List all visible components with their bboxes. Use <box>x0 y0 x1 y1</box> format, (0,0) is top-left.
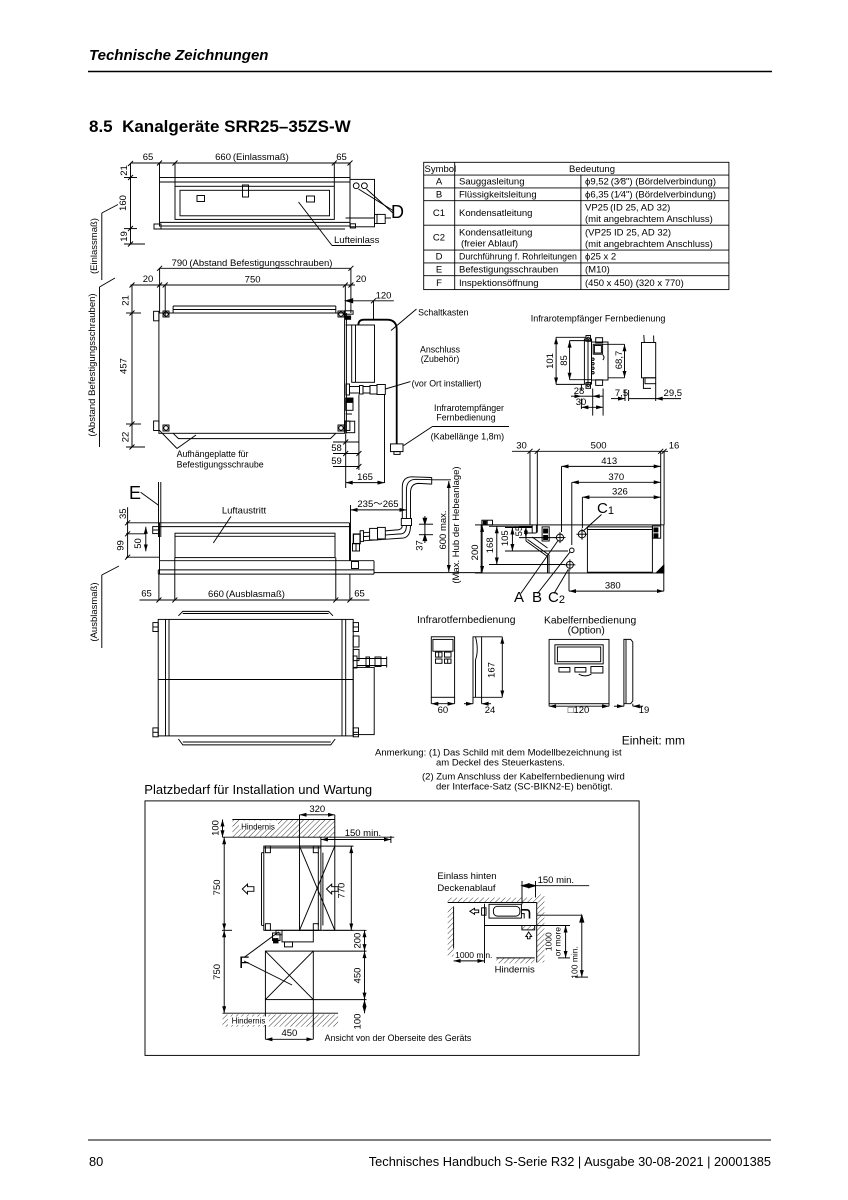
extension lines (bolt lines) <box>159 268 161 313</box>
svg-text:Einheit: mm: Einheit: mm <box>622 734 685 748</box>
svg-text:19: 19 <box>119 231 130 242</box>
inlet opening <box>175 186 334 219</box>
extension lines <box>529 451 531 525</box>
receiver detail texts <box>531 314 682 409</box>
37 dim <box>424 516 426 543</box>
lower body lines <box>160 560 375 562</box>
svg-text:Durchführung f. Rohrleitungen: Durchführung f. Rohrleitungen <box>459 252 577 262</box>
50 dim <box>145 527 147 552</box>
right small niche drawing <box>448 881 590 977</box>
dim 326 <box>582 496 660 498</box>
svg-text:(vor Ort installiert): (vor Ort installiert) <box>412 379 482 389</box>
svg-text:19: 19 <box>639 705 650 716</box>
svg-text:150 min.: 150 min. <box>538 875 574 886</box>
inlet tabs <box>197 196 205 202</box>
svg-text:(freier Ablauf): (freier Ablauf) <box>461 239 518 250</box>
leader Luftaustritt <box>213 516 231 543</box>
svg-text:100: 100 <box>211 820 222 836</box>
svg-text:ϕ9,52 (3∕8") (Bördelverbindung: ϕ9,52 (3∕8") (Bördelverbindung) <box>585 177 716 188</box>
right reference lines <box>537 914 582 916</box>
unit top view <box>264 846 321 930</box>
page header rule <box>88 71 772 73</box>
svg-text:660 (Ausblasmaß): 660 (Ausblasmaß) <box>208 589 285 600</box>
dim line 65/660/65 top <box>131 162 351 164</box>
F opening upper (X) <box>300 846 335 930</box>
600 max dim <box>448 481 450 572</box>
niche drawing texts <box>437 871 579 979</box>
svg-text:Aufhängeplatte für: Aufhängeplatte für <box>177 449 249 459</box>
svg-text:Bedeutung: Bedeutung <box>569 164 615 175</box>
buttons <box>592 358 594 360</box>
svg-text:320: 320 <box>309 804 325 815</box>
ceiling hatch <box>448 898 537 903</box>
svg-text:or more: or more <box>553 927 563 957</box>
svg-text:168: 168 <box>485 537 496 553</box>
svg-text:(VP25 ID 25, AD 32): (VP25 ID 25, AD 32) <box>585 228 671 239</box>
dim line 20/750/20 <box>131 284 356 286</box>
leader Schaltkasten <box>391 309 417 331</box>
svg-text:Hindernis: Hindernis <box>241 823 275 832</box>
svg-text:ϕ25 x 2: ϕ25 x 2 <box>585 252 616 263</box>
leader E <box>141 492 159 505</box>
svg-text:Anschluss: Anschluss <box>420 344 461 354</box>
svg-text:59: 59 <box>331 456 342 467</box>
dim 200 <box>364 930 366 951</box>
dim 1000 or more <box>565 926 567 958</box>
wired remote front <box>549 639 609 703</box>
unit <box>489 904 521 918</box>
leaders A B C2 C1 <box>521 541 558 594</box>
svg-text:200: 200 <box>352 933 363 949</box>
dim 100 top <box>222 820 224 838</box>
left wall <box>448 907 454 956</box>
svg-text:101: 101 <box>545 353 556 369</box>
bottom obstacle <box>496 957 534 959</box>
svg-text:Technisches Handbuch S-Serie R: Technisches Handbuch S-Serie R32 | Ausga… <box>369 1154 771 1169</box>
pipe assembly: tilted horizontal run <box>363 530 397 533</box>
svg-text:Befestigungsschrauben: Befestigungsschrauben <box>459 265 558 276</box>
svg-text:Kondensatleitung: Kondensatleitung <box>459 228 532 239</box>
svg-text:85: 85 <box>559 355 570 366</box>
svg-text:380: 380 <box>605 580 621 591</box>
outer frame <box>145 801 639 1056</box>
flow arrow left <box>470 908 479 914</box>
svg-text:E: E <box>129 483 141 503</box>
svg-text:C2: C2 <box>433 233 445 244</box>
dim 29,5 <box>629 398 656 400</box>
dim 120 <box>346 300 394 302</box>
58/59 ticks <box>345 433 347 488</box>
leader Aufhaengeplatte <box>159 430 177 449</box>
right wall <box>537 895 545 963</box>
bottom dim 65/660/65 <box>140 599 370 601</box>
bottom flange <box>178 739 335 745</box>
riser pipe with elbows <box>402 477 431 519</box>
svg-text:65: 65 <box>354 589 365 600</box>
bottom foot <box>154 224 161 229</box>
top flange <box>178 611 333 615</box>
Ausblasmass label line <box>101 575 103 648</box>
dim 370 <box>572 481 661 483</box>
F leaders <box>244 932 279 958</box>
dim 380 <box>569 590 664 592</box>
svg-text:22: 22 <box>121 432 132 443</box>
dim 150 min <box>522 885 589 887</box>
bottom flange <box>173 433 336 438</box>
dim 30/500/16 <box>512 450 668 452</box>
svg-text:750: 750 <box>212 964 223 980</box>
display window <box>593 344 602 354</box>
svg-text:Lufteinlass: Lufteinlass <box>334 235 380 246</box>
support <box>484 904 486 926</box>
235~265 dim <box>351 509 407 511</box>
dim 85 <box>569 341 571 380</box>
left vertical dim 21/457/22 <box>131 285 133 447</box>
bracket with bolts <box>542 527 549 541</box>
svg-text:80: 80 <box>89 1154 103 1169</box>
interior recess <box>531 525 533 533</box>
svg-text:B: B <box>532 589 542 606</box>
svg-text:21: 21 <box>119 165 130 176</box>
svg-text:(mit angebrachtem Anschluss): (mit angebrachtem Anschluss) <box>585 214 713 225</box>
top suspension plate <box>173 305 336 307</box>
svg-text:120: 120 <box>376 291 392 302</box>
svg-text:D: D <box>391 202 404 222</box>
dim 7,5 <box>611 398 625 400</box>
svg-text:Inspektionsöffnung: Inspektionsöffnung <box>459 278 539 289</box>
svg-text:□120: □120 <box>568 705 590 716</box>
svg-text:7,5: 7,5 <box>615 388 628 399</box>
svg-text:Hindernis: Hindernis <box>495 964 535 975</box>
top obstacle hatch <box>232 820 334 838</box>
dim 450 bottom <box>265 1038 313 1040</box>
side view body <box>642 343 656 378</box>
drain pipe stubs right <box>346 384 350 395</box>
svg-text:(mit angebrachtem Anschluss): (mit angebrachtem Anschluss) <box>585 239 713 250</box>
Einlassmass label line <box>101 213 103 280</box>
drawing 5 dimension texts and labels <box>470 441 679 606</box>
left top bracket <box>482 520 493 525</box>
svg-text:Ansicht von der Oberseite des: Ansicht von der Oberseite des Geräts <box>325 1033 472 1043</box>
right bracket <box>652 526 660 538</box>
outlet opening <box>175 533 335 557</box>
left dims 200/168/105/55 <box>481 525 483 573</box>
svg-text:F: F <box>239 953 249 972</box>
svg-text:28: 28 <box>574 386 585 397</box>
IR remote side <box>473 637 482 698</box>
lower stub (dark) <box>346 398 353 402</box>
svg-text:Schaltkasten: Schaltkasten <box>418 307 468 317</box>
svg-text:16: 16 <box>669 441 680 452</box>
corner brackets <box>154 311 159 321</box>
svg-text:100: 100 <box>352 1014 363 1030</box>
remote control texts <box>417 615 649 716</box>
leader Kabellaenge <box>432 426 509 428</box>
svg-text:24: 24 <box>485 705 496 716</box>
electric box <box>352 325 375 382</box>
dim 150 min top <box>321 839 391 841</box>
D pipe penetration square <box>375 214 386 223</box>
svg-text:Sauggasleitung: Sauggasleitung <box>459 177 525 188</box>
svg-text:50: 50 <box>133 538 144 549</box>
dim 750 lower <box>223 930 225 1013</box>
svg-text:(M10): (M10) <box>585 265 610 276</box>
svg-text:A: A <box>436 177 443 188</box>
svg-text:150 min.: 150 min. <box>345 828 381 839</box>
hanger tabs <box>153 623 158 632</box>
unit rect <box>481 525 664 573</box>
dim 100 min <box>581 915 583 977</box>
svg-text:200: 200 <box>470 544 481 560</box>
up arrow <box>526 932 532 939</box>
svg-text:am Deckel des Steuerkastens.: am Deckel des Steuerkastens. <box>436 757 565 768</box>
bottom tabs <box>586 383 591 389</box>
drawing 1 dimension texts <box>89 152 404 274</box>
svg-text:B: B <box>436 189 442 200</box>
svg-text:Deckenablauf: Deckenablauf <box>437 883 495 894</box>
svg-text:167: 167 <box>487 662 498 678</box>
svg-text:Symbol: Symbol <box>425 164 457 175</box>
svg-text:Befestigungsschraube: Befestigungsschraube <box>177 460 264 470</box>
svg-text:(Zubehör): (Zubehör) <box>421 354 460 364</box>
drawing 3 dimension texts and labels <box>89 466 462 641</box>
svg-text:99: 99 <box>116 540 127 551</box>
svg-text:Infrarotempfänger: Infrarotempfänger <box>434 403 504 413</box>
svg-text:65: 65 <box>143 152 154 163</box>
remarks block <box>375 748 625 793</box>
svg-text:Infrarotfernbedienung: Infrarotfernbedienung <box>417 615 516 626</box>
svg-text:413: 413 <box>601 456 617 467</box>
svg-text:457: 457 <box>119 358 130 374</box>
svg-text:1000 min.: 1000 min. <box>455 950 492 960</box>
svg-text:21: 21 <box>121 295 132 306</box>
svg-text:750: 750 <box>245 275 261 286</box>
svg-text:500: 500 <box>591 441 607 452</box>
dim 1000 min <box>454 960 485 962</box>
svg-text:Hindernis: Hindernis <box>232 1017 266 1026</box>
installation clearance texts <box>211 804 472 1043</box>
symbol table <box>424 162 729 289</box>
dim 28 <box>581 395 592 397</box>
pipe connection circles <box>556 534 563 541</box>
bottom obstacle hatch <box>223 1012 339 1014</box>
svg-text:E: E <box>436 265 442 276</box>
svg-text:750: 750 <box>212 879 223 895</box>
main body <box>158 619 353 736</box>
svg-text:Fernbedienung: Fernbedienung <box>436 413 495 423</box>
svg-text:235〜265: 235〜265 <box>357 499 398 510</box>
svg-text:Infrarotempfänger Fernbedienun: Infrarotempfänger Fernbedienung <box>531 314 666 324</box>
120 dim <box>549 705 609 707</box>
svg-text:C1: C1 <box>433 208 445 219</box>
svg-text:105: 105 <box>500 530 511 546</box>
svg-text:450: 450 <box>352 968 363 984</box>
svg-text:Technische Zeichnungen: Technische Zeichnungen <box>89 47 268 64</box>
leader lines to D <box>359 189 394 211</box>
unit top line <box>126 522 350 524</box>
IR remote front <box>431 637 454 698</box>
svg-text:165: 165 <box>357 472 373 483</box>
svg-text:Einlass hinten: Einlass hinten <box>437 871 496 882</box>
svg-text:VP25 (ID 25, AD 32): VP25 (ID 25, AD 32) <box>585 203 670 214</box>
svg-text:F: F <box>436 278 442 289</box>
inner box <box>587 527 652 572</box>
svg-text:29,5: 29,5 <box>664 388 683 399</box>
svg-text:Flüssigkeitsleitung: Flüssigkeitsleitung <box>459 189 537 200</box>
svg-text:60: 60 <box>438 705 449 716</box>
symbol table texts <box>425 164 717 289</box>
dim line 790 <box>160 267 351 269</box>
svg-text:55: 55 <box>514 526 525 537</box>
svg-text:370: 370 <box>608 472 624 483</box>
pump <box>522 926 535 930</box>
left vertical dim line 21/160/19 <box>130 163 132 245</box>
unit body outline <box>160 178 351 227</box>
svg-text:ϕ6,35 (1∕4") (Bördelverbindung: ϕ6,35 (1∕4") (Bördelverbindung) <box>585 189 716 200</box>
left hanger tab <box>153 527 160 534</box>
svg-text:Luftaustritt: Luftaustritt <box>222 506 267 517</box>
F opening lower (X) <box>265 951 313 1000</box>
cable from box <box>358 320 396 444</box>
svg-text:(Ausblasmaß): (Ausblasmaß) <box>89 582 100 641</box>
svg-text:(450 x 450) (320 x 770): (450 x 450) (320 x 770) <box>585 278 684 289</box>
unit body <box>159 523 161 574</box>
right attachment box with D holes <box>350 179 375 226</box>
E bolt rod <box>158 482 160 537</box>
svg-text:der Interface-Satz (SC-BIKN2-E: der Interface-Satz (SC-BIKN2-E) benötigt… <box>436 781 613 792</box>
dim 30 <box>581 406 603 408</box>
svg-text:65: 65 <box>141 589 152 600</box>
svg-text:20: 20 <box>143 274 154 285</box>
svg-text:C1: C1 <box>597 500 614 517</box>
receiver plug <box>391 444 404 452</box>
drain elbow <box>521 910 529 919</box>
dim 165 <box>346 482 385 484</box>
svg-text:(Max. Hub der Hebeanlage): (Max. Hub der Hebeanlage) <box>451 466 462 583</box>
svg-text:326: 326 <box>612 487 628 498</box>
extension lines from dim to unit <box>159 163 161 178</box>
60 dim <box>431 703 454 705</box>
svg-text:160: 160 <box>118 195 129 211</box>
receiver body <box>592 342 609 380</box>
svg-text:30: 30 <box>516 441 527 452</box>
svg-text:65: 65 <box>336 152 347 163</box>
svg-text:D: D <box>436 252 443 263</box>
svg-text:(Kabellänge 1,8m): (Kabellänge 1,8m) <box>431 432 505 442</box>
svg-text:Platzbedarf für Installation u: Platzbedarf für Installation und Wartung <box>144 782 372 797</box>
dim 450 right <box>364 951 366 1000</box>
dim 320 <box>300 814 335 816</box>
svg-text:770: 770 <box>337 883 348 899</box>
Abstand label line <box>99 287 101 447</box>
bracket plate <box>584 339 591 384</box>
svg-text:30: 30 <box>576 397 587 408</box>
dim 68,7 <box>624 344 626 378</box>
dim 100 bottom <box>364 1000 366 1014</box>
svg-text:37: 37 <box>414 540 425 551</box>
svg-text:(Abstand Befestigungsschrauben: (Abstand Befestigungsschrauben) <box>87 293 98 436</box>
svg-text:450: 450 <box>281 1028 297 1039</box>
wired remote side <box>624 639 633 703</box>
24 dim <box>464 703 473 705</box>
unit underside connectors <box>282 930 313 942</box>
unit main rect <box>159 313 345 433</box>
svg-text:C2: C2 <box>548 589 565 606</box>
flow arrows <box>242 884 254 894</box>
svg-text:A: A <box>514 589 524 606</box>
leader Anschluss <box>385 382 410 389</box>
svg-text:20: 20 <box>356 274 367 285</box>
drain stubs right <box>353 636 359 647</box>
drain fitting right edge <box>352 562 359 569</box>
footer rule <box>88 1139 771 1141</box>
svg-text:600 max.: 600 max. <box>438 510 449 549</box>
svg-text:58: 58 <box>331 443 342 454</box>
svg-text:100 min.: 100 min. <box>569 946 579 979</box>
dim 770 <box>350 846 352 930</box>
svg-text:(Einlassmaß): (Einlassmaß) <box>89 218 100 274</box>
dim 413 <box>562 465 661 467</box>
svg-text:660 (Einlassmaß): 660 (Einlassmaß) <box>215 152 289 163</box>
svg-text:Kondensatleitung: Kondensatleitung <box>459 208 532 219</box>
svg-text:35: 35 <box>118 508 129 519</box>
dim 750 upper <box>223 837 225 930</box>
19 dim <box>614 705 624 707</box>
electric box (bottom view) <box>353 667 374 734</box>
top tabs <box>586 336 591 342</box>
35/99 dim <box>127 507 129 558</box>
svg-text:(Option): (Option) <box>568 626 605 637</box>
svg-text:8.5 Kanalgeräte SRR25–35ZS-W: 8.5 Kanalgeräte SRR25–35ZS-W <box>89 117 352 136</box>
167 dim <box>501 637 503 698</box>
drawing 2 dimension texts and labels <box>87 258 504 483</box>
pipe run right <box>353 656 357 668</box>
svg-text:68,7: 68,7 <box>614 351 625 370</box>
leader Lufteinlass <box>299 202 333 246</box>
dim 101 <box>555 337 557 384</box>
svg-text:790 (Abstand Befestigungsschra: 790 (Abstand Befestigungsschrauben) <box>172 258 333 269</box>
